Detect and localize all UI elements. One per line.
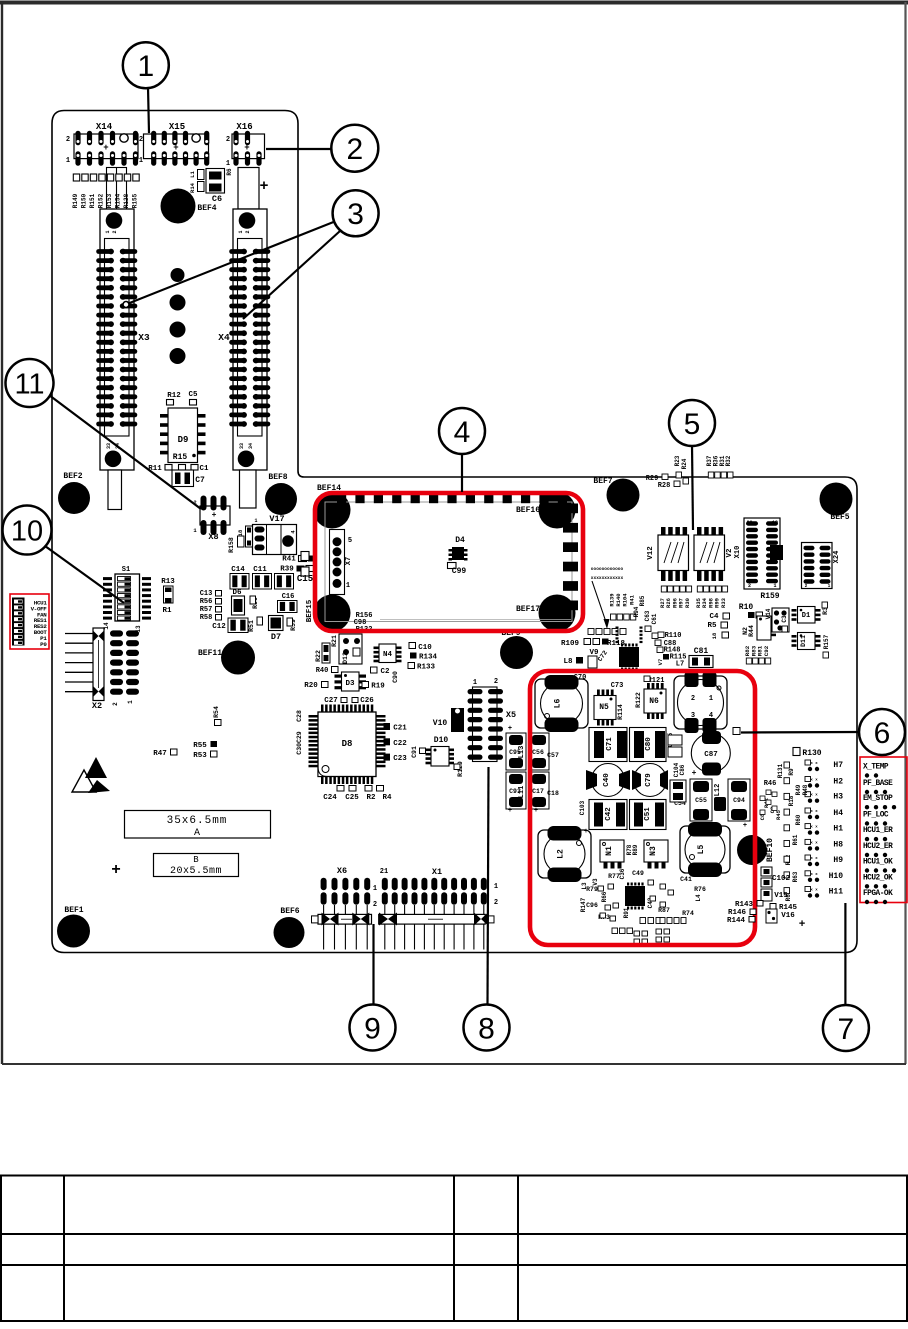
svg-text:R10: R10: [739, 603, 754, 612]
svg-text:V15: V15: [774, 892, 788, 900]
svg-text:R76: R76: [694, 886, 706, 893]
resistor R10: [739, 603, 763, 618]
IC D4: [449, 536, 468, 561]
legend table: [1, 1176, 907, 1322]
svg-text:19: 19: [772, 520, 778, 526]
svg-text:x x: x x: [810, 841, 818, 845]
resistor group below V2: [695, 586, 728, 608]
connector X5: [468, 678, 517, 762]
svg-text:C40: C40: [603, 773, 611, 787]
svg-text:C96: C96: [586, 902, 598, 909]
connector X2: [65, 628, 139, 711]
svg-text:35x6.5mm: 35x6.5mm: [167, 815, 228, 827]
svg-text:R39: R39: [280, 566, 294, 574]
svg-text:V7: V7: [657, 659, 664, 666]
svg-text:C15: C15: [297, 574, 313, 584]
svg-text:V2: V2: [726, 548, 734, 558]
svg-text:D3: D3: [345, 680, 355, 688]
resistor R13 / R1: [161, 578, 175, 615]
callout 5: [669, 400, 715, 446]
svg-text:C23: C23: [393, 755, 407, 763]
svg-text:HCU1_OK: HCU1_OK: [863, 859, 893, 867]
H designator labels: [829, 761, 844, 897]
svg-text:R41: R41: [282, 556, 296, 564]
resistors R78 R89: [626, 844, 639, 855]
IC D8: [309, 705, 386, 785]
capacitor C5: [188, 391, 198, 405]
callout 7 leader: [844, 903, 846, 1005]
callout 3 leaders: [123, 221, 340, 319]
resistor R59: [287, 618, 297, 631]
svg-text:x x: x x: [810, 810, 818, 814]
svg-text:x x: x x: [810, 794, 818, 798]
svg-text:C99: C99: [452, 567, 467, 576]
svg-text:+: +: [111, 861, 121, 879]
svg-text:34: 34: [248, 443, 254, 449]
capacitor C71: [589, 728, 627, 762]
svg-text:D12: D12: [342, 652, 349, 664]
resistor R159: [760, 592, 779, 601]
svg-text:R5: R5: [707, 622, 717, 630]
module mounting pad BEF14: [314, 484, 351, 529]
svg-text:C2: C2: [380, 668, 390, 676]
IC U-QFN: [616, 627, 643, 671]
inductor L1 / resistor R14 / capacitor C6: [189, 169, 225, 205]
svg-text:R49: R49: [795, 784, 802, 795]
callout 5 leader: [692, 445, 693, 530]
IC N2/R44: [742, 616, 776, 640]
svg-text:L5: L5: [697, 845, 706, 855]
svg-text:C16: C16: [282, 593, 295, 601]
svg-text:BEF10: BEF10: [766, 838, 775, 862]
svg-text:H2: H2: [833, 778, 843, 787]
svg-text:R51: R51: [248, 620, 255, 632]
svg-text:C86: C86: [679, 764, 686, 775]
callout 4 leader: [461, 453, 463, 492]
svg-text:C30C29: C30C29: [296, 731, 303, 755]
transformer V12: [647, 527, 689, 581]
capacitors C27 C26: [324, 697, 374, 705]
svg-text:R21: R21: [331, 635, 338, 647]
capacitors C103 C54: [579, 780, 686, 815]
svg-text:9: 9: [364, 1012, 381, 1045]
capacitor C15: [275, 574, 314, 590]
svg-text:X_TEMP: X_TEMP: [863, 764, 889, 772]
svg-text:R89: R89: [632, 844, 639, 855]
connector X1: [379, 867, 498, 950]
IC D6: [232, 589, 245, 615]
callout 1: [123, 42, 169, 88]
resistor R12: [167, 392, 182, 405]
callout 9: [350, 1005, 396, 1051]
svg-text:R22: R22: [315, 650, 322, 662]
inductor L9: [674, 672, 727, 733]
resistors R29 R28: [646, 474, 680, 490]
resistor R47: [153, 749, 177, 758]
svg-text:R29: R29: [646, 475, 659, 483]
svg-text:V12: V12: [647, 546, 655, 560]
svg-text:1: 1: [773, 583, 776, 589]
fiducial BEF10: [737, 835, 775, 865]
svg-text:D4: D4: [455, 536, 465, 545]
svg-text:R40: R40: [316, 667, 329, 675]
svg-text:C10: C10: [418, 644, 432, 652]
svg-text:C71: C71: [606, 737, 614, 751]
svg-text:R147: R147: [580, 897, 587, 912]
svg-text:N6: N6: [649, 697, 659, 706]
svg-text:H10: H10: [829, 872, 844, 881]
IC N4: [374, 644, 402, 663]
svg-text:C92: C92: [763, 645, 770, 656]
svg-text:2: 2: [380, 917, 383, 923]
svg-text:C90: C90: [392, 671, 399, 683]
capacitor C11: [253, 566, 272, 589]
svg-text:33: 33: [106, 443, 112, 449]
capacitor C81: [689, 647, 713, 668]
svg-text:1: 1: [66, 157, 70, 165]
svg-text:R24: R24: [681, 458, 688, 469]
svg-text:D10: D10: [434, 736, 449, 745]
svg-text:R153: R153: [106, 193, 113, 208]
resistors R94 R85: [633, 595, 646, 617]
svg-text:R32: R32: [725, 455, 732, 466]
callout 10 leader: [45, 546, 124, 603]
svg-text:R33: R33: [720, 597, 727, 608]
svg-text:C41: C41: [680, 876, 692, 883]
resistor R19: [362, 682, 385, 691]
svg-text:V16: V16: [781, 912, 795, 920]
svg-text:C81: C81: [694, 647, 709, 656]
svg-text:2: 2: [139, 136, 143, 144]
PCB board outline: [52, 111, 857, 953]
svg-text:R19: R19: [371, 683, 385, 691]
IC D9: [160, 408, 206, 463]
IC D3: [335, 672, 367, 691]
resistor R130: [793, 748, 822, 759]
svg-text:R155: R155: [132, 193, 139, 208]
svg-text:R47: R47: [153, 750, 167, 758]
resistor R158: [228, 536, 244, 553]
svg-text:PF_BASE: PF_BASE: [863, 780, 893, 788]
capacitor C12: [212, 618, 248, 633]
svg-text:R9: R9: [788, 768, 795, 776]
dimension box B 20x5.5mm: [154, 854, 239, 878]
svg-text:2: 2: [494, 899, 498, 907]
resistor R134: [410, 653, 437, 662]
svg-text:X14: X14: [96, 122, 113, 132]
svg-text:33: 33: [239, 443, 245, 449]
resistor R41: [282, 556, 316, 564]
svg-text:2: 2: [805, 583, 808, 589]
svg-text:C27: C27: [324, 697, 338, 705]
svg-text:C25: C25: [345, 794, 359, 802]
connector X16: [226, 122, 265, 168]
svg-text:+: +: [508, 725, 512, 733]
svg-text:X1: X1: [432, 867, 442, 877]
svg-text:X6: X6: [337, 866, 347, 876]
svg-text:+: +: [534, 807, 538, 815]
svg-text:C91: C91: [411, 746, 418, 758]
svg-text:R54: R54: [213, 706, 220, 718]
svg-text:2: 2: [373, 901, 377, 909]
resistor R11 / capacitor C1: [148, 465, 209, 474]
svg-text:2: 2: [691, 695, 695, 703]
svg-text:C73: C73: [611, 682, 624, 690]
capacitors left of module: [301, 552, 309, 577]
svg-text:C56: C56: [532, 749, 544, 756]
module outline: [325, 502, 572, 622]
capacitor C3: [781, 615, 788, 632]
svg-text:2: 2: [494, 678, 498, 686]
capacitor C16: [278, 593, 298, 613]
svg-text:C63: C63: [644, 610, 651, 621]
resistor R54: [213, 706, 221, 725]
DIP legend (red box): [10, 594, 49, 649]
svg-text:N5: N5: [599, 703, 609, 712]
svg-text:x x: x x: [810, 873, 818, 877]
resistor group below V12: [659, 586, 692, 608]
resistors R23 R24: [674, 455, 689, 484]
svg-text:FPGA-OK: FPGA-OK: [863, 890, 893, 898]
svg-text:2: 2: [226, 136, 230, 144]
resistors R143 R145 R146 R144 V16: [727, 901, 806, 932]
module castellated edge top: [337, 494, 567, 503]
callout 9 leader: [372, 924, 374, 1004]
svg-text:C6: C6: [212, 194, 222, 204]
capacitors C24 C25 R2 R4: [323, 786, 392, 803]
svg-text:x x: x x: [810, 779, 818, 783]
svg-text:X8: X8: [208, 532, 218, 542]
svg-text:EM_STOP: EM_STOP: [863, 795, 893, 803]
IC N5: [594, 690, 616, 726]
capacitor C42: [589, 800, 627, 830]
callout 2: [331, 125, 378, 172]
svg-text:C18: C18: [547, 790, 559, 797]
capacitor C102: [761, 867, 790, 887]
svg-text:R15: R15: [173, 453, 188, 462]
transformer V2: [694, 527, 734, 581]
signal name legend (red box): [860, 757, 907, 904]
svg-text:C4: C4: [709, 613, 719, 621]
svg-text:C13: C13: [200, 590, 213, 598]
svg-text:x x: x x: [810, 762, 818, 766]
svg-text:R58: R58: [200, 614, 213, 622]
svg-text:C17: C17: [532, 788, 544, 795]
svg-text:5: 5: [348, 537, 352, 545]
svg-text:oooooooooooo: oooooooooooo: [591, 567, 624, 572]
svg-text:D7: D7: [271, 632, 281, 642]
transistor V18: [237, 526, 253, 547]
module castellated edge right: [563, 504, 578, 611]
svg-text:R144: R144: [727, 917, 746, 925]
svg-text:+: +: [259, 178, 268, 195]
svg-text:9: 9: [828, 545, 831, 551]
svg-text:R110: R110: [665, 632, 682, 640]
svg-text:1: 1: [828, 583, 831, 589]
svg-text:C5: C5: [188, 391, 198, 399]
resistor row R149-R155: [72, 168, 139, 210]
svg-text:+: +: [212, 511, 217, 520]
capacitor C4 / resistor R5: [707, 613, 729, 639]
svg-text:L11: L11: [518, 786, 526, 799]
svg-text:x x: x x: [810, 826, 818, 830]
svg-text:8: 8: [478, 1012, 495, 1045]
small parts cluster bottom of power area: [580, 868, 706, 944]
svg-text:7: 7: [838, 1013, 855, 1046]
svg-text:2: 2: [346, 133, 363, 166]
svg-text:C103: C103: [579, 800, 586, 815]
IC D1: [792, 607, 821, 624]
inter-connector mounting holes: [170, 268, 186, 364]
svg-text:1: 1: [254, 518, 257, 524]
svg-text:R2: R2: [366, 794, 376, 802]
svg-text:BEF8: BEF8: [268, 473, 287, 482]
IC D11: [792, 633, 821, 650]
svg-text:18: 18: [237, 529, 244, 536]
svg-text:S1: S1: [122, 566, 130, 574]
fiducial BEF5: [820, 483, 853, 523]
callout 6: [859, 709, 905, 755]
connector X15: [139, 122, 209, 166]
svg-text:R41: R41: [628, 594, 635, 605]
resistors R55 R53: [193, 741, 217, 760]
svg-text:C79: C79: [645, 773, 653, 787]
IC D7: [269, 616, 284, 643]
svg-text:R134: R134: [419, 654, 438, 662]
capacitors C55 L12 C94: [584, 779, 750, 836]
svg-text:C14: C14: [231, 566, 245, 574]
resistor column R46-R64: [759, 762, 809, 901]
capacitor C99: [448, 563, 467, 577]
svg-text:1: 1: [346, 582, 350, 590]
capacitor column C95 C56 C57 / C93 C17 C18 (left edge): [506, 725, 559, 815]
svg-text:R133: R133: [417, 664, 436, 672]
svg-text:6: 6: [874, 717, 891, 750]
svg-text:2: 2: [245, 230, 251, 233]
svg-text:R13: R13: [161, 578, 175, 586]
svg-text:HCU2_ER: HCU2_ER: [863, 843, 893, 851]
svg-text:R4: R4: [382, 794, 392, 802]
svg-text:H7: H7: [833, 761, 843, 770]
resistor R6: [226, 168, 233, 176]
module mounting pad BEF17: [516, 595, 576, 632]
svg-text:C51: C51: [644, 807, 652, 821]
ICs N1 N3: [600, 840, 624, 869]
svg-text:R20: R20: [304, 682, 318, 690]
connector X3 tail: [108, 470, 122, 510]
svg-text:1: 1: [137, 50, 154, 83]
svg-text:1: 1: [127, 700, 134, 704]
svg-text:x x: x x: [810, 857, 818, 861]
svg-text:BEF2: BEF2: [63, 472, 82, 481]
svg-text:3: 3: [691, 712, 695, 720]
svg-text:2: 2: [112, 702, 119, 706]
capacitors C63 C61: [644, 610, 658, 638]
resistors R82 R83 R81 C92: [744, 645, 771, 664]
svg-text:R14: R14: [189, 182, 196, 193]
LED column H7-H11: [805, 760, 819, 898]
svg-text:R56: R56: [200, 598, 213, 606]
figure frame: [0, 2, 908, 1064]
svg-text:R131: R131: [777, 763, 784, 778]
svg-text:R23: R23: [674, 455, 681, 466]
IC D10: [426, 736, 455, 766]
svg-text:21: 21: [380, 868, 388, 876]
svg-text:X10: X10: [734, 546, 742, 559]
svg-text:C61: C61: [651, 613, 658, 624]
svg-text:X15: X15: [169, 122, 185, 132]
capacitor C79: [632, 764, 668, 797]
svg-text:C22: C22: [393, 740, 407, 748]
svg-text:D8: D8: [342, 739, 353, 749]
svg-text:R45: R45: [775, 809, 782, 820]
highlight box 6 (red): [530, 671, 755, 945]
svg-text:H9: H9: [833, 856, 843, 865]
svg-text:N3: N3: [649, 846, 658, 856]
IC V17: [253, 514, 297, 555]
connector X16 tail: [238, 168, 269, 210]
capacitor C87: [691, 731, 730, 778]
svg-text:xxxxxxxxxxxx: xxxxxxxxxxxx: [591, 576, 624, 581]
svg-text:C87: C87: [704, 751, 718, 759]
svg-text:R158: R158: [228, 537, 235, 553]
callout 4: [439, 408, 485, 454]
svg-text:X24: X24: [833, 551, 841, 564]
resistors R22 R21 / IC D12: [315, 634, 362, 664]
fiducial BEF11: [198, 641, 255, 675]
svg-text:X7: X7: [345, 557, 353, 565]
svg-text:R87: R87: [658, 907, 670, 914]
DIP switch S1: [103, 566, 151, 633]
callout 2 leader: [266, 148, 333, 150]
svg-text:R44: R44: [748, 625, 755, 637]
svg-text:1: 1: [494, 883, 498, 891]
power controller QFN: [625, 883, 645, 910]
svg-text:C57: C57: [547, 752, 559, 759]
connector X7: [330, 530, 354, 595]
svg-text:+: +: [799, 919, 806, 931]
callout 6 leader: [733, 728, 859, 735]
svg-text:1: 1: [373, 885, 377, 893]
connector X6: [312, 866, 378, 950]
svg-text:R143: R143: [735, 901, 754, 909]
IC N6: [644, 683, 666, 719]
svg-text:1: 1: [226, 160, 230, 168]
svg-text:R154: R154: [115, 193, 122, 208]
svg-text:C42: C42: [605, 807, 613, 821]
svg-text:X5: X5: [506, 710, 516, 720]
callout 10: [3, 506, 52, 555]
svg-text:C7: C7: [195, 476, 205, 485]
svg-text:L4: L4: [695, 894, 702, 902]
svg-text:BEF1: BEF1: [64, 906, 83, 915]
svg-text:BEF11: BEF11: [198, 649, 222, 658]
svg-text:R91: R91: [623, 907, 630, 918]
inductor L2: [538, 826, 591, 882]
transistor V15: [761, 889, 788, 901]
svg-text:X16: X16: [236, 122, 252, 132]
svg-text:R66: R66: [601, 891, 608, 902]
svg-text:11: 11: [14, 368, 44, 400]
svg-text:+: +: [692, 769, 697, 778]
resistor R133: [408, 663, 435, 672]
svg-text:D1: D1: [802, 612, 810, 620]
connector X4: [218, 209, 270, 470]
callout 8 leader: [488, 767, 489, 1004]
svg-text:D11: D11: [800, 635, 807, 647]
svg-text:R152: R152: [98, 193, 105, 208]
plus mark: [111, 861, 121, 879]
